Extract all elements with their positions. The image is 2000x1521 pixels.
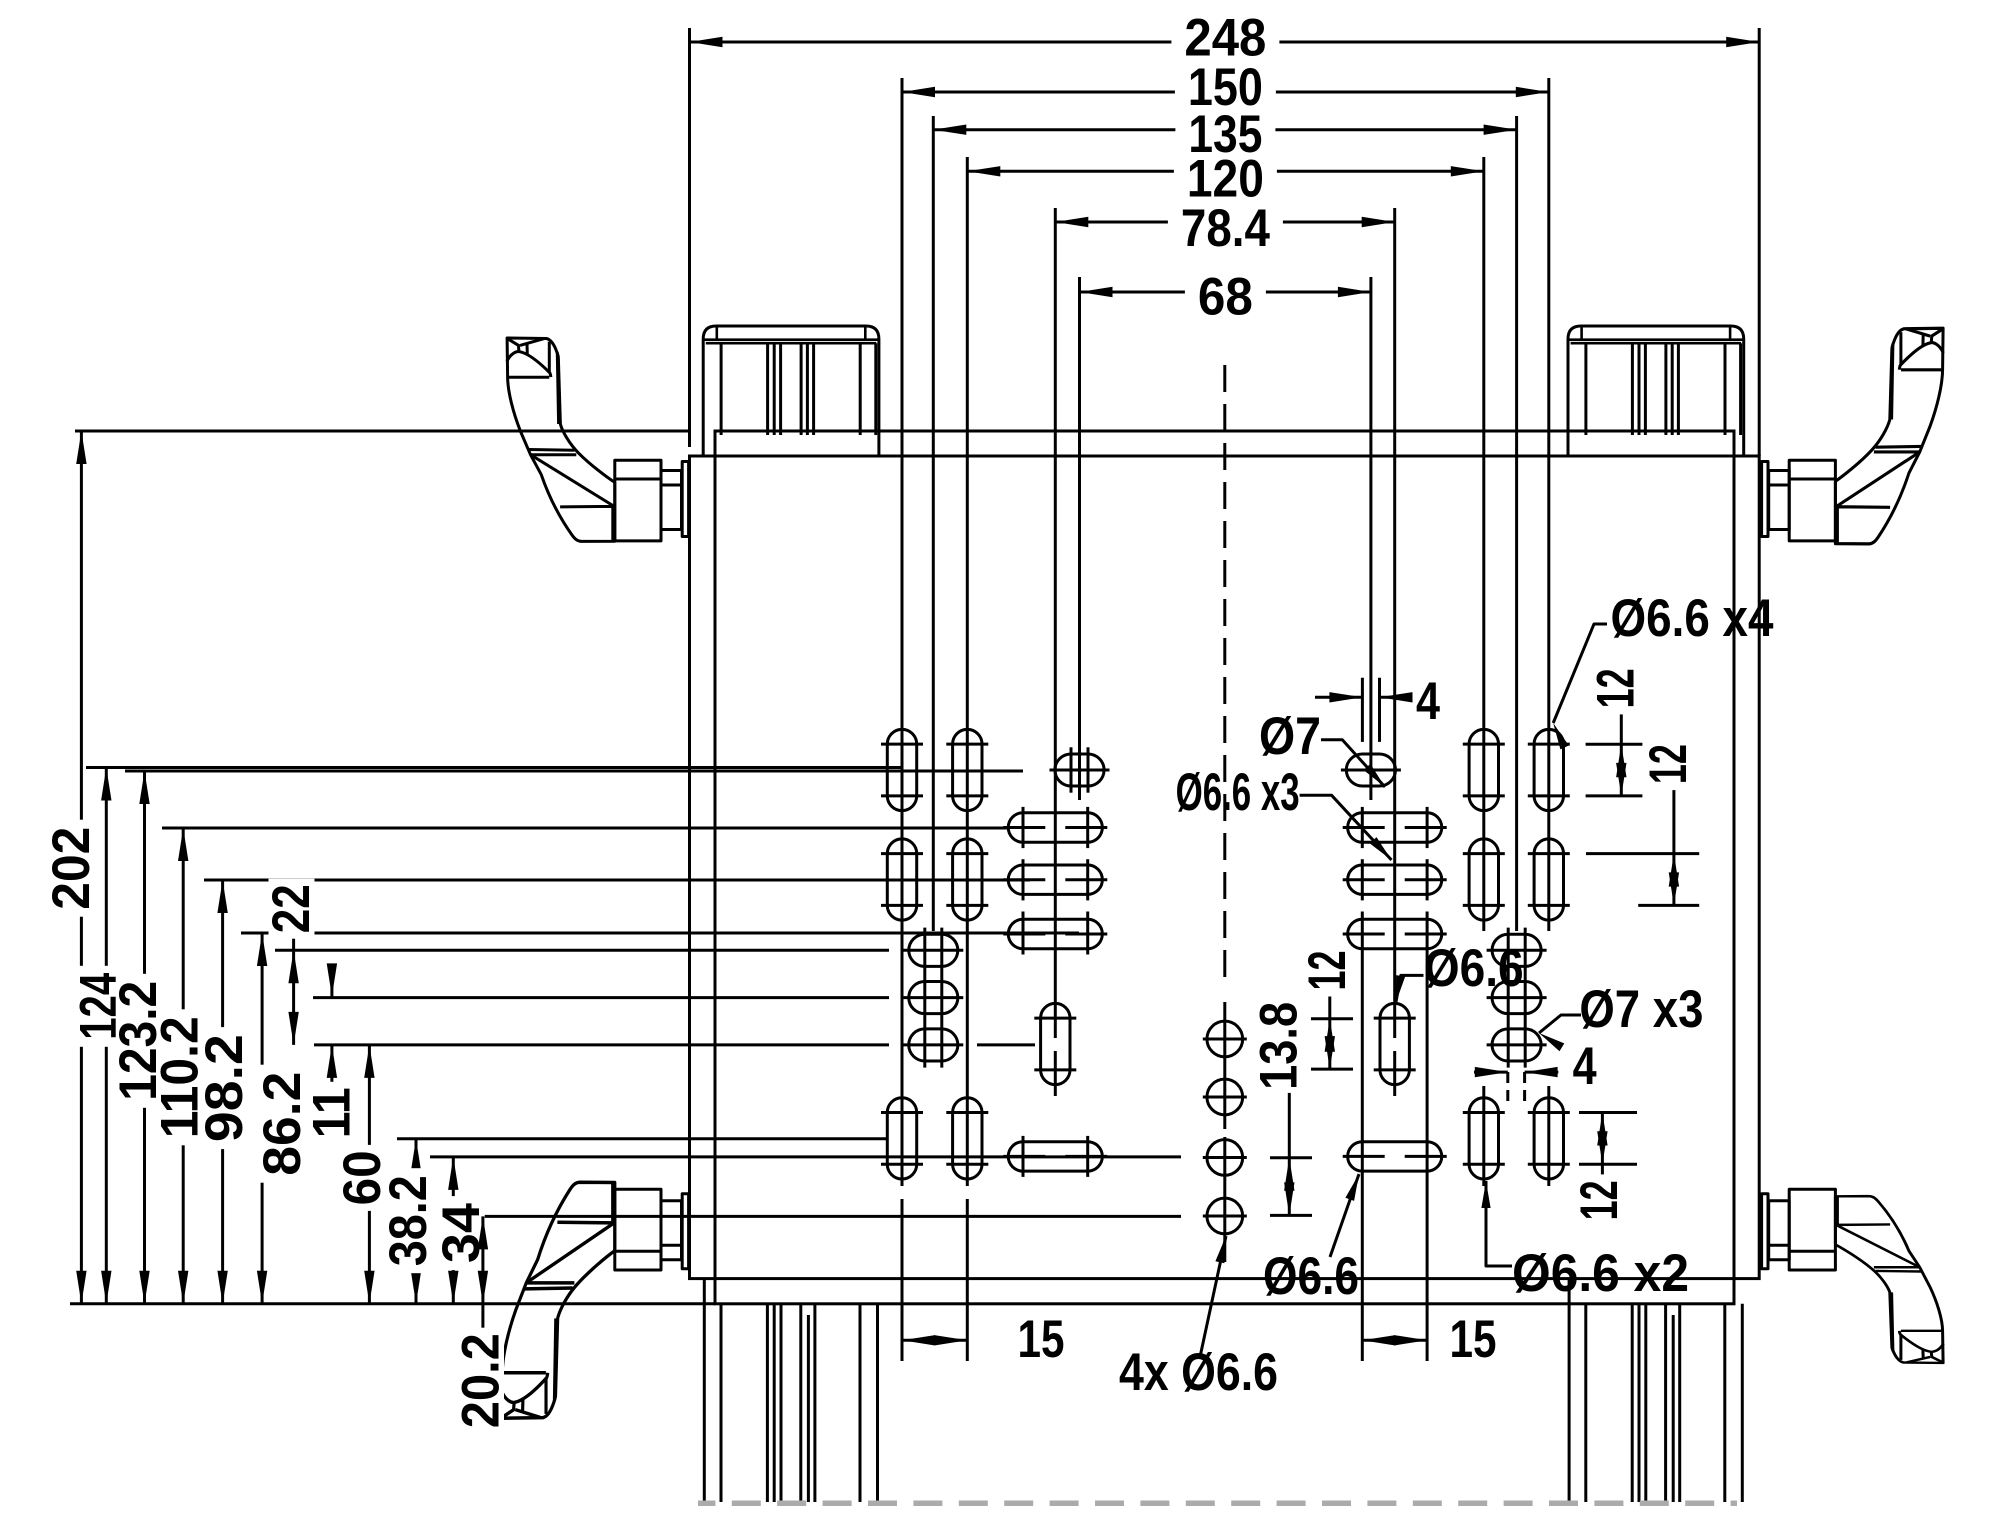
svg-text:4: 4 <box>1573 1037 1597 1096</box>
svg-text:Ø7 x3: Ø7 x3 <box>1579 980 1703 1039</box>
svg-text:12: 12 <box>1298 951 1357 991</box>
svg-text:13.8: 13.8 <box>1250 1002 1309 1090</box>
svg-text:4: 4 <box>1416 672 1440 731</box>
svg-text:202: 202 <box>42 827 101 910</box>
svg-text:Ø6.6 x4: Ø6.6 x4 <box>1611 589 1774 648</box>
svg-text:98.2: 98.2 <box>195 1034 254 1142</box>
svg-text:Ø6.6: Ø6.6 <box>1424 939 1524 998</box>
svg-text:4x Ø6.6: 4x Ø6.6 <box>1119 1343 1278 1402</box>
svg-text:12: 12 <box>1570 1180 1629 1220</box>
svg-text:60: 60 <box>333 1150 392 1205</box>
svg-text:Ø6.6: Ø6.6 <box>1263 1247 1359 1306</box>
svg-text:12: 12 <box>1587 668 1646 708</box>
svg-text:Ø6.6 x2: Ø6.6 x2 <box>1512 1244 1689 1303</box>
svg-text:Ø7: Ø7 <box>1259 707 1321 766</box>
svg-text:15: 15 <box>1018 1310 1065 1369</box>
svg-text:12: 12 <box>1639 744 1698 784</box>
svg-text:68: 68 <box>1198 268 1253 327</box>
svg-text:15: 15 <box>1450 1310 1497 1369</box>
svg-text:Ø6.6 x3: Ø6.6 x3 <box>1176 763 1300 822</box>
svg-text:20.2: 20.2 <box>452 1333 511 1428</box>
svg-text:11: 11 <box>303 1087 362 1138</box>
svg-text:22: 22 <box>262 884 321 933</box>
svg-text:78.4: 78.4 <box>1181 199 1270 258</box>
